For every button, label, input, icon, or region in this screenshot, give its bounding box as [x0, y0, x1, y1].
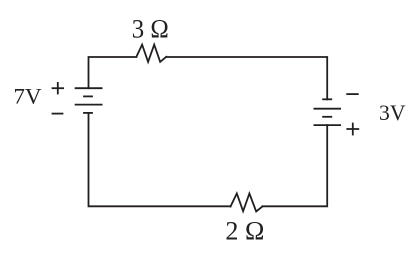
- battery B1 minus sign: [53, 113, 63, 115]
- battery B1 7V plates: [76, 88, 102, 113]
- resistor R1 3 ohm zigzag: [136, 45, 166, 62]
- wire top-right segment: [166, 57, 327, 99]
- svg-text:7V: 7V: [14, 83, 42, 108]
- wire top-left segment: [89, 57, 137, 88]
- battery B2 minus sign: [347, 93, 358, 95]
- wire left-bottom segment: [89, 113, 231, 206]
- battery B2 plus sign: [347, 124, 358, 135]
- wire bottom-right segment: [262, 125, 327, 206]
- svg-text:3 Ω: 3 Ω: [132, 14, 169, 43]
- svg-text:2 Ω: 2 Ω: [225, 216, 264, 245]
- battery B2 3V plates: [314, 99, 340, 125]
- svg-text:3V: 3V: [379, 100, 406, 125]
- battery B1 plus sign: [53, 83, 64, 94]
- resistor R2 2 ohm zigzag: [231, 194, 263, 212]
